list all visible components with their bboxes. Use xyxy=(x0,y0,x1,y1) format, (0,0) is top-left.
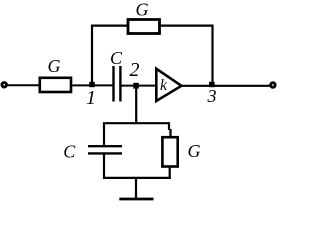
svg-text:G: G xyxy=(48,56,61,76)
svg-text:k: k xyxy=(160,77,168,94)
wire node 3 to output terminal xyxy=(213,85,270,87)
wire resistor G1 to node 1 xyxy=(72,84,113,86)
label 2 xyxy=(130,59,140,81)
label G (feedback resistor) xyxy=(136,0,149,20)
wire feedback top right xyxy=(160,25,214,27)
wire RC top rail xyxy=(103,122,170,124)
output terminal xyxy=(271,83,276,88)
svg-text:G: G xyxy=(188,141,201,161)
capacitor C1 plate right xyxy=(119,66,121,102)
wire node 2 down to RC tank xyxy=(135,86,137,124)
label C (tank capacitor) xyxy=(63,142,76,162)
svg-text:C: C xyxy=(110,48,123,68)
wire amplifier output to node 3 xyxy=(181,85,213,87)
svg-text:3: 3 xyxy=(207,86,217,106)
svg-text:2: 2 xyxy=(130,59,140,81)
resistor G1 xyxy=(40,78,71,92)
label 3 xyxy=(207,86,217,106)
svg-text:C: C xyxy=(63,142,76,162)
wire capacitor to amplifier xyxy=(122,85,157,87)
wire to ground xyxy=(135,177,137,199)
node 2 xyxy=(133,83,139,89)
label C (series capacitor) xyxy=(110,48,123,68)
label G (tank resistor) xyxy=(188,141,201,161)
wire resistor G3 to bottom rail xyxy=(169,167,171,179)
label k (amplifier gain) xyxy=(160,77,168,94)
label G (input resistor) xyxy=(48,56,61,76)
ground xyxy=(119,198,153,201)
op-amp U1 xyxy=(156,69,181,101)
wire left branch down to capacitor C2 xyxy=(103,123,105,147)
wire input to resistor G1 xyxy=(7,84,40,86)
input terminal xyxy=(2,83,7,88)
wire RC bottom rail xyxy=(103,177,171,179)
wire feedback down to node 3 xyxy=(211,25,213,87)
capacitor C2 plate top xyxy=(88,145,122,147)
node 1 xyxy=(89,82,94,87)
capacitor C2 plate bottom xyxy=(88,152,122,154)
label 1 xyxy=(86,87,96,109)
wire right branch down to resistor G3 xyxy=(169,123,171,138)
wire feedback top left xyxy=(91,25,128,27)
svg-text:G: G xyxy=(136,0,149,20)
wire node 1 up to feedback branch xyxy=(91,26,93,85)
node 3 xyxy=(209,82,215,87)
resistor G3 (tank) xyxy=(162,137,177,166)
wire capacitor C2 to bottom rail xyxy=(103,154,105,179)
resistor G2 (feedback) xyxy=(128,20,160,34)
capacitor C1 plate left xyxy=(112,66,114,102)
svg-text:1: 1 xyxy=(86,87,96,109)
